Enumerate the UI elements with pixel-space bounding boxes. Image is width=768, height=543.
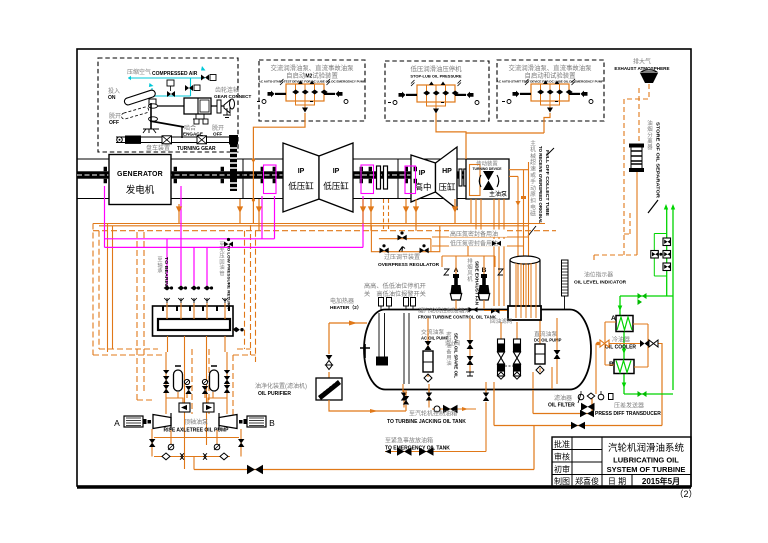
solid bearing return header 2: [99, 225, 529, 227]
svg-text:凝汽轮机控制油箱来: 凝汽轮机控制油箱来: [418, 307, 470, 315]
inner-left dashed verticals: [137, 232, 144, 400]
svg-text:主机械超速或手动原扣电磁: 主机械超速或手动原扣电磁: [530, 139, 536, 217]
level switch floats: [377, 313, 410, 384]
svg-text:汽轮机润滑油系统: 汽轮机润滑油系统: [608, 442, 685, 454]
long line y=247: [105, 196, 364, 288]
svg-text:HEATER（2）: HEATER（2）: [330, 305, 362, 311]
pump cone B: [219, 415, 237, 429]
svg-text:主油泵: 主油泵: [489, 190, 507, 198]
svg-text:低压氮密封备用油: 低压氮密封备用油: [450, 240, 498, 248]
hangers inside manifold top: [163, 306, 229, 311]
svg-text:HP: HP: [442, 168, 452, 175]
svg-text:GENERATOR: GENERATOR: [117, 171, 163, 178]
valve stacks: [163, 370, 230, 393]
N2 seal spare oil labels: [449, 230, 507, 248]
svg-text:TO LOW PRESSURE RETURN: TO LOW PRESSURE RETURN: [227, 245, 231, 309]
to turbine seal oil tank line: [404, 390, 429, 408]
svg-text:批准: 批准: [554, 439, 570, 449]
svg-text:审核: 审核: [554, 452, 570, 462]
oil vapor separator column: [629, 119, 661, 213]
impeller: [483, 171, 494, 190]
svg-text:2015年5月: 2015年5月: [642, 476, 680, 486]
svg-text:至汽轮机控制油箱: 至汽轮机控制油箱: [409, 410, 457, 418]
svg-text:IP: IP: [419, 170, 426, 177]
svg-text:过压调节装置: 过压调节装置: [384, 253, 420, 261]
manifold drain valve: [233, 327, 240, 332]
swing arm + post: [150, 121, 184, 127]
casing top/bottom lines: [77, 158, 509, 160]
svg-text:密封油备用油: 密封油备用油: [446, 330, 452, 367]
oil connections: [596, 322, 662, 394]
svg-text:滤油器: 滤油器: [554, 394, 572, 402]
valves on bottom pipes: [247, 465, 263, 474]
svg-text:PRESS DIFF TRANSDUCER: PRESS DIFF TRANSDUCER: [595, 411, 661, 417]
funnel: [640, 73, 658, 83]
actuator cylinder: [184, 98, 211, 114]
internal orange drops: [403, 367, 552, 392]
N2 seal headers: [432, 237, 529, 246]
svg-text:TO EMERGENCY OIL TANK: TO EMERGENCY OIL TANK: [385, 446, 450, 452]
svg-text:LUBRICATING OIL: LUBRICATING OIL: [613, 456, 679, 465]
svg-text:OIL LEVEL INDICATOR: OIL LEVEL INDICATOR: [574, 280, 627, 286]
svg-text:至无压回油管: 至无压回油管: [219, 241, 224, 277]
three-way valves: [600, 340, 609, 347]
pump cone A: [153, 415, 171, 429]
lever handle: [121, 89, 156, 119]
svg-text:投入: 投入: [108, 87, 120, 95]
svg-text:压缸: 压缸: [438, 182, 456, 192]
dashed box: turning gear device: [98, 58, 251, 152]
small valve on low-N2 header: [492, 241, 501, 246]
svg-text:逆止阀: 逆止阀: [445, 340, 460, 347]
svg-text:自启动M2试验装置: 自启动M2试验装置: [286, 71, 338, 80]
svg-text:自启动和试验装置: 自启动和试验装置: [524, 71, 576, 80]
turbine train band: [77, 159, 509, 199]
svg-text:COMPRESSED AIR: COMPRESSED AIR: [152, 71, 198, 77]
svg-text:GEAR CONNECT: GEAR CONNECT: [214, 94, 251, 99]
svg-text:油位指示器: 油位指示器: [584, 271, 613, 279]
svg-text:OIL PURIFIER: OIL PURIFIER: [258, 391, 291, 397]
svg-text:电加热器: 电加热器: [330, 297, 354, 305]
svg-text:低压缸: 低压缸: [288, 181, 314, 191]
motor B: [239, 416, 266, 427]
svg-text:盘车装置: 盘车装置: [146, 144, 170, 152]
svg-text:FROM TURBINE CONTROL OIL TANK: FROM TURBINE CONTROL OIL TANK: [418, 315, 497, 320]
svg-text:EXHAUST ATMOSPHERE: EXHAUST ATMOSPHERE: [614, 66, 669, 71]
shaft bar: [77, 171, 509, 178]
svg-text:交流润滑油泵、直流事故油泵: 交流润滑油泵、直流事故油泵: [270, 63, 354, 72]
center valve column: [445, 318, 474, 376]
svg-text:TO TURBINE JACKING OIL TANK: TO TURBINE JACKING OIL TANK: [387, 419, 466, 425]
air valve 1: [167, 91, 175, 97]
svg-text:高压氮密封备用油: 高压氮密封备用油: [450, 230, 498, 238]
4 inlet valves with gauge dots: [164, 286, 213, 291]
svg-text:SEAL OIL SPARE OIL: SEAL OIL SPARE OIL: [454, 333, 459, 378]
motor A: [124, 416, 151, 427]
gen left bearing drop: [105, 186, 275, 247]
svg-text:顶轴油泵: 顶轴油泵: [184, 418, 208, 426]
svg-text:高高、低低油位停机开: 高高、低低油位停机开: [364, 282, 426, 290]
support under cylinder: [193, 114, 207, 119]
svg-text:至紧急事故放油箱: 至紧急事故放油箱: [385, 437, 433, 445]
svg-text:脱开: 脱开: [109, 112, 121, 120]
compressed air line (cyan): [128, 78, 205, 96]
exhaust to atmosphere: [614, 58, 669, 84]
svg-text:油净化装置(滤油机): 油净化装置(滤油机): [255, 382, 307, 390]
air valve 2: [185, 85, 193, 91]
svg-text:SIDE EXHAUST FAN: SIDE EXHAUST FAN: [475, 261, 480, 306]
dashed box B: low lube oil pressure trip: [385, 61, 489, 121]
svg-text:排大气: 排大气: [633, 58, 651, 66]
solid bearing return header 1: [93, 223, 545, 225]
small arrows on bearing drains: [177, 207, 457, 212]
svg-text:OFF: OFF: [109, 120, 119, 126]
green double valves: [638, 293, 647, 397]
svg-text:冷油器: 冷油器: [612, 336, 630, 344]
green small boxes: [651, 238, 671, 271]
valve1 feed: [166, 239, 168, 288]
svg-text:OIL FILTER: OIL FILTER: [548, 403, 575, 409]
svg-text:IP: IP: [333, 168, 340, 175]
svg-text:压差发送器: 压差发送器: [614, 402, 644, 410]
coupling between LP and HP: [377, 166, 388, 189]
ground under horn: [223, 108, 231, 118]
drawing frame: [77, 49, 691, 488]
svg-text:TO BEARING: TO BEARING: [164, 257, 169, 290]
svg-text:高中: 高中: [414, 182, 431, 192]
air valve 3: [201, 75, 209, 81]
svg-text:ON: ON: [108, 95, 116, 101]
svg-text:排烟风机: 排烟风机: [467, 257, 473, 283]
DC oil pump: [534, 318, 562, 384]
dashed box A: AC lube pump / DC emergency pump auto start + test: [257, 60, 365, 121]
heater element: [360, 344, 370, 358]
svg-text:SYSTEM OF TURBINE: SYSTEM OF TURBINE: [607, 465, 686, 474]
green arrows: [664, 204, 675, 210]
generator: [109, 155, 171, 205]
svg-text:TO RECEIVE OVERSPEED ORIGINAL: TO RECEIVE OVERSPEED ORIGINAL: [538, 146, 543, 224]
svg-text:至轴承: 至轴承: [157, 256, 163, 275]
svg-text:发电机: 发电机: [126, 184, 155, 196]
svg-text:OVERPRESS REGULATOR: OVERPRESS REGULATOR: [378, 262, 440, 268]
left branch piping: [166, 352, 227, 414]
svg-text:（2）: （2）: [674, 489, 697, 499]
dashed box C: AC lube pump / DC emergency pump auto start and test: [497, 60, 604, 121]
coupling before main oil pump: [459, 169, 467, 186]
svg-text:日 期: 日 期: [608, 477, 626, 486]
orange feeds inside manifold + drops: [167, 303, 236, 469]
dashed verticals around jacking relief pair: [192, 349, 209, 414]
AC oil pump: [421, 318, 449, 382]
svg-text:OFF: OFF: [213, 132, 222, 137]
svg-text:回油滤网: 回油滤网: [490, 317, 513, 325]
injectors: [497, 322, 520, 379]
svg-text:OIL COOLER: OIL COOLER: [605, 345, 636, 351]
svg-text:A: A: [114, 418, 120, 428]
svg-text:关 高低油位报警开关: 关 高低油位报警开关: [364, 290, 426, 298]
LP left bearing drops: [262, 196, 275, 239]
svg-text:齿轮连轴: 齿轮连轴: [215, 86, 239, 94]
actuator rod: [156, 105, 232, 107]
svg-text:B: B: [269, 418, 275, 428]
svg-text:制图: 制图: [554, 476, 570, 486]
vertical text column: overspeed trip: [528, 139, 554, 236]
accumulators: [174, 370, 219, 391]
svg-text:郑喜俊: 郑喜俊: [575, 476, 599, 486]
svg-text:交流润滑油泵、直流事故油泵: 交流润滑油泵、直流事故油泵: [508, 63, 592, 72]
dashed long header: [93, 230, 556, 232]
svg-text:RISE AXLETREE OIL PUMP: RISE AXLETREE OIL PUMP: [163, 428, 229, 434]
gauges: [184, 379, 207, 384]
svg-text:AC OIL PUMP: AC OIL PUMP: [421, 336, 449, 341]
box C drain: [466, 113, 550, 133]
svg-text:低压缸: 低压缸: [323, 181, 349, 191]
turning gear shaft: [116, 136, 238, 138]
fan feed manifold: [442, 246, 495, 267]
inline valve on return line: [224, 242, 233, 247]
LP cylinders (bowtie): [283, 143, 353, 212]
svg-text:油烟分离器: 油烟分离器: [647, 119, 653, 151]
gen right bearing drop to manifold valve2: [180, 186, 182, 288]
svg-text:FULL OFF COLLECT TUBE: FULL OFF COLLECT TUBE: [545, 150, 550, 216]
bearing drains to header: [179, 199, 455, 231]
right-of-manifold dashed verticals: [245, 225, 256, 362]
svg-text:AC AUTO-START TEST DEVICE FOR: AC AUTO-START TEST DEVICE FOR DC LUBE OI…: [497, 80, 604, 84]
small pads on rod: [149, 104, 158, 108]
bypass valves: [149, 439, 155, 447]
bypass loop: [152, 429, 241, 470]
svg-text:IP: IP: [298, 168, 305, 175]
relief valve boxes: [179, 403, 214, 412]
band divider: [242, 159, 244, 199]
line y=251 to HP bearing: [206, 247, 208, 288]
svg-text:低压润滑油压停机: 低压润滑油压停机: [410, 64, 462, 73]
title block: [552, 437, 691, 487]
left dashed verticals: [93, 224, 99, 356]
box A drain: [253, 113, 305, 224]
svg-text:TURNING GEAR: TURNING GEAR: [177, 146, 216, 152]
svg-text:压缩空气: 压缩空气: [127, 68, 151, 76]
svg-text:初审: 初审: [554, 464, 570, 474]
turning gear mesh (toothed strip): [230, 143, 237, 191]
magenta bearing boxes: [264, 165, 416, 194]
svg-text:STOP-LUB OIL PRESSURE: STOP-LUB OIL PRESSURE: [410, 74, 462, 79]
HP-IP cylinder (bowtie): [411, 147, 457, 209]
manifold shell: [153, 306, 234, 336]
bearing ticks on shaft: [104, 167, 471, 183]
main oil pump box: [466, 159, 509, 199]
dashed bottom rails: [99, 348, 251, 350]
coupling bar + horn: [217, 100, 221, 113]
box B drain: [436, 113, 466, 159]
svg-text:TURNING DEVICE: TURNING DEVICE: [472, 167, 502, 171]
arrows into manifold: [164, 298, 228, 303]
